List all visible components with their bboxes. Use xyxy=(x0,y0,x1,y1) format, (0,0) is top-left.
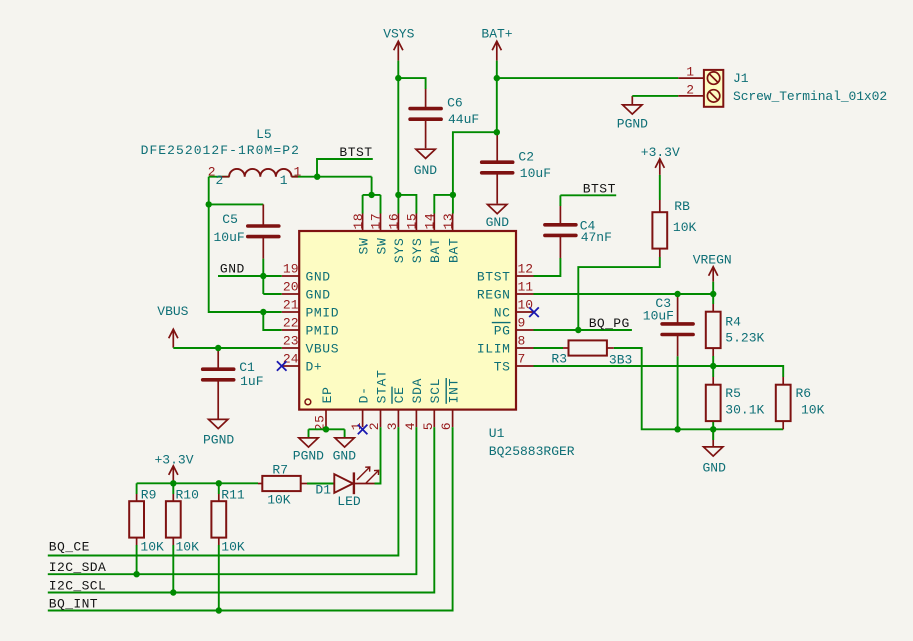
power flag VREGN xyxy=(709,267,718,282)
svg-text:GND: GND xyxy=(306,288,331,303)
junction BAT pins xyxy=(450,192,456,198)
svg-text:C2: C2 xyxy=(518,150,534,165)
capacitor C3 10uF xyxy=(677,297,679,324)
wire PG net to BQ_PG label xyxy=(534,329,632,331)
wire REGN net xyxy=(534,293,714,295)
wire R4 bottom / R5 top xyxy=(712,356,714,377)
no-connect pin 1 D- xyxy=(358,425,368,435)
wire BTST label top-left xyxy=(317,159,373,177)
wire VSYS net vertical xyxy=(397,61,399,195)
wire R10 leads xyxy=(172,483,174,494)
svg-text:R7: R7 xyxy=(272,463,288,478)
U1 bottom pin names EP D- STAT CE SDA SCL INT xyxy=(320,369,462,403)
svg-text:5.23K: 5.23K xyxy=(725,331,764,346)
ground GND under C2 xyxy=(496,173,498,204)
ground GND at U1 EP xyxy=(344,429,346,438)
svg-text:INT: INT xyxy=(446,378,461,404)
wire +3.3V rail bottom left xyxy=(137,482,258,484)
svg-text:GND: GND xyxy=(702,461,726,476)
svg-text:U1: U1 xyxy=(489,426,505,441)
svg-text:D+: D+ xyxy=(306,360,323,375)
no-connect pin 10 NC xyxy=(529,307,539,317)
svg-text:GND: GND xyxy=(220,262,245,277)
svg-text:1: 1 xyxy=(686,65,694,80)
wire R9 leads xyxy=(136,483,138,494)
svg-text:7: 7 xyxy=(518,352,526,367)
svg-text:23: 23 xyxy=(283,334,299,349)
power flag BAT+ xyxy=(492,41,501,60)
svg-text:C1: C1 xyxy=(239,360,255,375)
svg-text:STAT: STAT xyxy=(374,369,389,403)
svg-text:10K: 10K xyxy=(267,492,291,507)
svg-text:10: 10 xyxy=(518,298,534,313)
svg-text:19: 19 xyxy=(283,262,299,277)
capacitor C2 10uF xyxy=(496,134,498,162)
junction EP grounds xyxy=(323,426,329,432)
junction +3.3V rail / R11 xyxy=(216,480,222,486)
wire ILIM to R3 xyxy=(534,347,564,349)
svg-text:PMID: PMID xyxy=(306,324,340,339)
svg-text:10K: 10K xyxy=(221,540,245,555)
junction PMID pins xyxy=(260,309,266,315)
svg-text:VREGN: VREGN xyxy=(693,253,732,268)
wire C5 branch xyxy=(209,203,264,205)
svg-text:2: 2 xyxy=(216,173,224,188)
svg-text:1uF: 1uF xyxy=(240,374,263,389)
wire R5 bottom to rail xyxy=(712,429,714,440)
svg-text:R5: R5 xyxy=(725,386,741,401)
junction BAT+ / J1 xyxy=(494,75,500,81)
svg-text:BAT: BAT xyxy=(428,238,443,264)
svg-text:SYS: SYS xyxy=(410,238,425,264)
wire L5 left down to PMID xyxy=(209,177,282,312)
svg-text:R6: R6 xyxy=(796,386,812,401)
resistor R5 30.1K xyxy=(712,377,714,384)
wire R3 to divider rail xyxy=(614,348,783,429)
svg-text:D-: D- xyxy=(356,386,371,403)
svg-text:R11: R11 xyxy=(221,487,245,502)
junction BQ_INT / R11 xyxy=(216,607,222,613)
svg-text:10uF: 10uF xyxy=(643,309,674,324)
svg-text:VBUS: VBUS xyxy=(306,342,340,357)
wire C3 top lead junction to REGN xyxy=(677,294,679,297)
U1 bottom pin numbers 25,1-6 xyxy=(313,414,455,431)
svg-text:13: 13 xyxy=(441,213,456,230)
wire EP pin 25 to grounds xyxy=(325,427,327,429)
svg-text:GND: GND xyxy=(486,215,510,230)
wire RB pulldown to PG xyxy=(578,257,660,330)
wire STAT pin 2 to LED xyxy=(375,427,381,483)
U1 pin 3 CE overline xyxy=(391,387,393,404)
svg-text:14: 14 xyxy=(423,213,438,230)
capacitor C4 47nF xyxy=(559,206,561,225)
svg-text:24: 24 xyxy=(283,352,299,367)
svg-text:EP: EP xyxy=(320,386,335,403)
svg-text:BTST: BTST xyxy=(477,270,511,285)
svg-text:PGND: PGND xyxy=(203,433,234,448)
svg-text:I2C_SDA: I2C_SDA xyxy=(49,560,106,575)
wire VBUS to pin 23 xyxy=(173,347,281,349)
svg-text:CE: CE xyxy=(392,386,407,403)
svg-text:1: 1 xyxy=(280,173,288,188)
svg-text:+3.3V: +3.3V xyxy=(154,452,193,467)
svg-text:SDA: SDA xyxy=(410,378,425,404)
diode D1 LED arrows xyxy=(357,467,379,483)
wire GND label to pin 19 xyxy=(218,275,282,277)
svg-text:R3: R3 xyxy=(551,352,567,367)
svg-text:SW: SW xyxy=(374,237,389,254)
junction BAT+ / C2 xyxy=(494,129,500,135)
junction +3.3V rail / R10 xyxy=(170,480,176,486)
svg-text:GND: GND xyxy=(414,163,438,178)
wire BAT pins branch xyxy=(434,195,453,214)
wire BQ_INT net xyxy=(48,427,453,610)
wire R11 leads xyxy=(218,483,220,494)
svg-text:44uF: 44uF xyxy=(448,112,479,127)
U1 EP pin indicator circle xyxy=(305,399,311,405)
svg-text:BQ_PG: BQ_PG xyxy=(589,316,630,331)
svg-text:BQ_CE: BQ_CE xyxy=(49,540,90,555)
wire I2C_SDA net xyxy=(48,427,417,574)
wire pin 22 branch xyxy=(263,312,281,330)
svg-text:10K: 10K xyxy=(801,403,825,418)
junction GND / C5 / pin19 xyxy=(260,273,266,279)
svg-text:R9: R9 xyxy=(141,487,157,502)
svg-text:30.1K: 30.1K xyxy=(725,403,764,418)
wire R4 top xyxy=(712,294,714,304)
ground GND under C6 xyxy=(425,119,427,148)
svg-text:PG: PG xyxy=(494,324,511,339)
inductor L5 DFE252012F-1R0M=P2 xyxy=(229,169,291,177)
wire pin 20 branch xyxy=(263,293,281,295)
svg-text:REGN: REGN xyxy=(477,288,511,303)
svg-text:10K: 10K xyxy=(673,220,697,235)
resistor R6 10K xyxy=(782,377,784,384)
svg-text:1: 1 xyxy=(294,165,302,180)
junction REGN / C3 xyxy=(674,291,680,297)
svg-text:BQ_INT: BQ_INT xyxy=(49,596,98,611)
junction L5 / BTST xyxy=(314,174,320,180)
wire I2C_SCL net xyxy=(48,427,435,592)
svg-text:17: 17 xyxy=(369,213,384,230)
U1 pin stubs bottom (pins 25,1-6) xyxy=(326,410,453,428)
svg-text:22: 22 xyxy=(283,316,299,331)
capacitor C5 10uF xyxy=(262,204,264,226)
ground GND bottom right divider xyxy=(712,429,714,447)
wire BQ_CE net xyxy=(48,427,399,555)
junction SW pins xyxy=(368,192,374,198)
svg-text:2: 2 xyxy=(686,82,694,97)
svg-text:10uF: 10uF xyxy=(520,166,551,181)
resistor R3 3B3 xyxy=(563,347,569,349)
svg-text:SYS: SYS xyxy=(392,238,407,264)
wire SW pins branch xyxy=(363,194,381,196)
svg-text:10K: 10K xyxy=(140,540,164,555)
wire BAT+ to J1 pin1 xyxy=(497,77,679,79)
diode D1 LED xyxy=(334,474,353,493)
svg-text:C6: C6 xyxy=(447,96,463,111)
ground PGND under C1 xyxy=(217,380,219,419)
wire SW node down xyxy=(371,177,373,195)
svg-text:GND: GND xyxy=(333,449,357,464)
U1 top pin numbers 18-13 xyxy=(351,213,456,230)
svg-text:R10: R10 xyxy=(176,487,199,502)
svg-text:VSYS: VSYS xyxy=(383,27,414,42)
junction TS / R4 / R5 xyxy=(710,363,716,369)
wire VREGN down xyxy=(712,282,714,294)
junction PG / RB xyxy=(575,327,581,333)
svg-text:12: 12 xyxy=(518,262,534,277)
svg-text:L5: L5 xyxy=(256,127,272,142)
svg-text:SCL: SCL xyxy=(428,378,443,404)
svg-text:Screw_Terminal_01x02: Screw_Terminal_01x02 xyxy=(733,89,887,104)
wire BAT+ vertical xyxy=(496,61,498,134)
svg-text:BTST: BTST xyxy=(339,145,372,160)
svg-text:R4: R4 xyxy=(725,314,741,329)
wire R7 to D1 anode xyxy=(307,483,334,485)
svg-text:SW: SW xyxy=(356,237,371,254)
capacitor C6 44uF xyxy=(425,89,427,108)
wire BTST label right xyxy=(560,194,616,196)
svg-text:15: 15 xyxy=(405,213,420,230)
U1 pin stubs top (pins 18-13) xyxy=(363,214,453,232)
wire BAT+ branch to BAT pins xyxy=(453,132,497,195)
resistor R11 10K xyxy=(218,494,220,502)
connector J1 pin stubs xyxy=(678,78,704,96)
svg-text:PMID: PMID xyxy=(306,306,340,321)
ground PGND under J1 pin2 xyxy=(631,96,633,105)
svg-text:18: 18 xyxy=(351,213,366,230)
junction C5 tap xyxy=(206,201,212,207)
svg-text:3B3: 3B3 xyxy=(609,353,632,368)
wire RB top to +3.3V xyxy=(659,175,661,200)
wire C4 bottom to pin 12 BTST xyxy=(534,258,561,276)
svg-text:VBUS: VBUS xyxy=(157,304,188,319)
svg-text:2: 2 xyxy=(208,165,216,180)
junction REGN / VREGN / R4 xyxy=(710,291,716,297)
svg-text:47nF: 47nF xyxy=(581,230,612,245)
U1 pin stubs left (pins 19-24) xyxy=(282,276,300,366)
svg-text:+3.3V: +3.3V xyxy=(641,145,680,160)
junction GND rail / R5 xyxy=(710,426,716,432)
resistor R9 10K xyxy=(136,494,138,502)
U1 right pin names xyxy=(477,270,511,375)
wire SYS pins branch xyxy=(398,195,416,214)
junction VBUS / C1 xyxy=(215,345,221,351)
svg-text:10K: 10K xyxy=(176,540,200,555)
svg-text:9: 9 xyxy=(518,316,526,331)
svg-text:PGND: PGND xyxy=(617,116,648,131)
svg-text:21: 21 xyxy=(283,298,299,313)
junction GND rail / C3 xyxy=(674,426,680,432)
svg-text:BTST: BTST xyxy=(583,181,616,196)
svg-text:NC: NC xyxy=(494,306,511,321)
resistor R7 10K xyxy=(258,483,262,485)
wire TS net xyxy=(534,365,714,367)
junction I2C_SCL / R10 xyxy=(170,589,176,595)
svg-text:LED: LED xyxy=(337,494,361,509)
U1 pin 9 PG overline xyxy=(492,322,511,324)
U1 top pin names SW SW SYS SYS BAT BAT xyxy=(356,237,461,263)
svg-text:TS: TS xyxy=(494,360,511,375)
wire TS to R6 xyxy=(713,366,783,377)
U1 left pin names xyxy=(306,270,340,375)
svg-text:DFE252012F-1R0M=P2: DFE252012F-1R0M=P2 xyxy=(141,143,300,158)
svg-text:GND: GND xyxy=(306,270,331,285)
wire L5 to SW node xyxy=(209,176,230,178)
svg-text:ILIM: ILIM xyxy=(477,342,511,357)
resistor R4 5.23K xyxy=(712,304,714,311)
power flag VBUS xyxy=(169,329,178,348)
U1 right pin numbers 12-7 xyxy=(518,262,534,367)
power flag +3.3V left xyxy=(169,466,178,483)
svg-text:J1: J1 xyxy=(733,71,749,86)
svg-text:BAT: BAT xyxy=(446,238,461,264)
svg-text:D1: D1 xyxy=(315,483,331,498)
connector J1 screw 1 xyxy=(707,72,719,84)
svg-text:RB: RB xyxy=(674,199,690,214)
wire J1 pin2 to PGND xyxy=(632,95,678,97)
wire R6 bottom to rail xyxy=(782,422,784,430)
op-amp U1 BQ25883RGER body xyxy=(299,231,516,410)
svg-text:11: 11 xyxy=(518,280,534,295)
svg-text:10uF: 10uF xyxy=(214,230,245,245)
power flag VSYS xyxy=(394,41,403,60)
junction SYS pins / VSYS xyxy=(395,192,401,198)
wire VSYS to C6 xyxy=(398,78,425,89)
U1 left pin numbers 19-24 xyxy=(283,262,299,367)
junction VSYS / C6 xyxy=(395,75,401,81)
power flag +3.3V right xyxy=(655,159,664,175)
connector J1 Screw_Terminal_01x02 body xyxy=(704,70,723,107)
svg-text:C5: C5 xyxy=(222,212,238,227)
svg-text:20: 20 xyxy=(283,280,299,295)
wire C3 bottom to GND rail xyxy=(677,356,679,429)
svg-text:BQ25883RGER: BQ25883RGER xyxy=(489,444,575,459)
wire C5 bottom to GND net xyxy=(262,259,264,294)
no-connect pin 24 D+ xyxy=(277,361,287,371)
resistor RB 10K xyxy=(659,200,661,212)
svg-text:8: 8 xyxy=(518,334,526,349)
resistor R10 10K xyxy=(172,494,174,502)
U1 pin stubs right (pins 12-7) xyxy=(516,276,534,366)
connector J1 screw 2 xyxy=(707,90,719,102)
svg-text:16: 16 xyxy=(387,213,402,230)
capacitor C1 1uF xyxy=(217,348,219,369)
svg-text:BAT+: BAT+ xyxy=(481,27,512,42)
ground PGND at U1 EP xyxy=(308,429,310,438)
svg-text:PGND: PGND xyxy=(293,449,324,464)
junction I2C_SDA / R9 xyxy=(133,571,139,577)
U1 pin 6 INT overline xyxy=(445,378,447,404)
svg-text:I2C_SCL: I2C_SCL xyxy=(49,578,106,593)
